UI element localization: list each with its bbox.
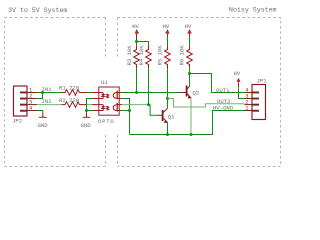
svg-text:IN1: IN1 <box>42 86 53 93</box>
svg-text:IN2: IN2 <box>42 98 52 105</box>
svg-text:HV: HV <box>163 23 170 30</box>
wire C2 row (U1 to R4/Q1 base) <box>122 104 150 106</box>
svg-text:U1: U1 <box>101 79 108 86</box>
wire E1/E2 to bus <box>122 99 130 135</box>
wire IN2 (JP2.3 to R2) <box>37 104 62 106</box>
U1 LED channel 2 <box>99 105 109 111</box>
wire IN1 (JP2.1 to R1) <box>37 92 62 94</box>
wire HV to R6 <box>189 36 191 46</box>
svg-text:HV: HV <box>234 70 241 77</box>
supply HV (over R6) <box>187 29 192 36</box>
resistor R3 10K <box>134 46 140 68</box>
junction C2/R4 <box>147 103 150 106</box>
resistor R1 220 <box>62 90 88 96</box>
junction OUT1 node <box>188 72 191 75</box>
svg-text:R5 10K: R5 10K <box>156 45 163 66</box>
resistor R5 10K <box>165 46 171 68</box>
supply HV (over R3/R4) <box>135 29 140 40</box>
svg-text:4: 4 <box>245 87 248 93</box>
connector JP2 <box>14 86 38 116</box>
svg-text:HV: HV <box>185 23 192 30</box>
junction cathode2 <box>85 109 88 112</box>
svg-text:JP2: JP2 <box>12 118 22 125</box>
dashed box: Noisy system <box>118 18 281 167</box>
U1 LED channel 1 <box>99 93 109 99</box>
svg-text:R6 10K: R6 10K <box>179 45 186 66</box>
wire C1 row (U1 to Q2 base) <box>122 92 179 94</box>
wire R2 to U1 anode2 <box>87 104 92 106</box>
junction Q2 emitter bus <box>190 133 193 136</box>
junction IN1 <box>41 91 44 94</box>
svg-text:GND: GND <box>38 122 49 129</box>
wire Q2 emitter to bus <box>190 98 192 134</box>
wire C2 jog to Q1 base <box>150 105 158 116</box>
svg-text:OUT1: OUT1 <box>216 87 230 94</box>
svg-text:Q1: Q1 <box>168 114 175 121</box>
wire HV to R5 <box>167 36 169 46</box>
wire Q1 emitter to bus <box>167 123 169 135</box>
dashed box: 3V-to-5V system <box>5 18 106 167</box>
ground GND (JP2) <box>39 113 47 117</box>
wire emitter bus HV-GND <box>130 111 245 135</box>
junction HV node <box>135 40 138 43</box>
wire R1 to U1 anode1 <box>87 92 92 94</box>
wire Q1 collector to R5 <box>167 99 169 109</box>
wire E2 row <box>122 110 130 112</box>
junction Q1 collector / OUT2 <box>166 97 169 100</box>
svg-text:1: 1 <box>245 105 248 111</box>
U1 phototransistor 1 <box>113 91 122 100</box>
svg-text:2: 2 <box>29 93 32 99</box>
svg-text:Q2: Q2 <box>193 90 200 97</box>
wire R6 to Q2 collector <box>189 68 191 86</box>
svg-text:R4 10K: R4 10K <box>138 45 145 66</box>
wire R4 to C2 node <box>148 68 150 104</box>
wire U1 cathode2 <box>92 110 99 112</box>
supply HV (JP1) <box>236 78 240 87</box>
transistor Q2 <box>179 86 192 99</box>
wire OUT1 (Q2 collector to JP1.4) <box>190 74 245 93</box>
transistor Q1 <box>158 108 168 123</box>
svg-text:OPTO: OPTO <box>98 118 114 125</box>
junction Q1 emitter bus <box>166 133 169 136</box>
wire HV to JP1.3 <box>239 87 245 98</box>
op-amp U1 optocoupler box <box>99 87 119 115</box>
ground GND (U1) <box>83 113 91 117</box>
svg-text:3V to 5V System: 3V to 5V System <box>8 7 67 14</box>
wire IN1 tie to JP2.2 <box>37 93 43 99</box>
svg-text:3: 3 <box>245 93 248 99</box>
resistor R2 220 <box>62 102 88 108</box>
svg-text:GND: GND <box>81 122 92 129</box>
wire U1 cathodes to GND <box>92 98 99 100</box>
svg-text:JP1: JP1 <box>257 78 268 85</box>
supply HV (over R5) <box>165 29 170 36</box>
U1 phototransistor 2 <box>113 103 122 112</box>
wire R5 to Q1 collector node <box>167 68 169 98</box>
svg-text:HV-GND: HV-GND <box>213 105 234 112</box>
resistor R4 10K <box>146 46 152 68</box>
junction R3/C1 <box>135 91 138 94</box>
junction E2 <box>128 109 131 112</box>
wire HV to R3/R4 <box>137 40 149 46</box>
svg-text:R2 220: R2 220 <box>59 97 80 104</box>
wire OUT2 (Q1 collector to JP1.2) <box>168 99 245 108</box>
svg-text:4: 4 <box>29 105 32 111</box>
svg-text:1: 1 <box>29 87 32 93</box>
resistor R6 10K <box>187 46 193 68</box>
svg-text:R3 10K: R3 10K <box>126 45 133 66</box>
connector JP1 <box>245 85 266 120</box>
svg-text:Noisy System: Noisy System <box>229 7 277 14</box>
wire JP2.4 to GND <box>37 111 43 114</box>
svg-text:R1 220: R1 220 <box>59 85 80 92</box>
wire R3 to U1 collector1 <box>136 68 138 92</box>
svg-text:HV: HV <box>132 23 139 30</box>
